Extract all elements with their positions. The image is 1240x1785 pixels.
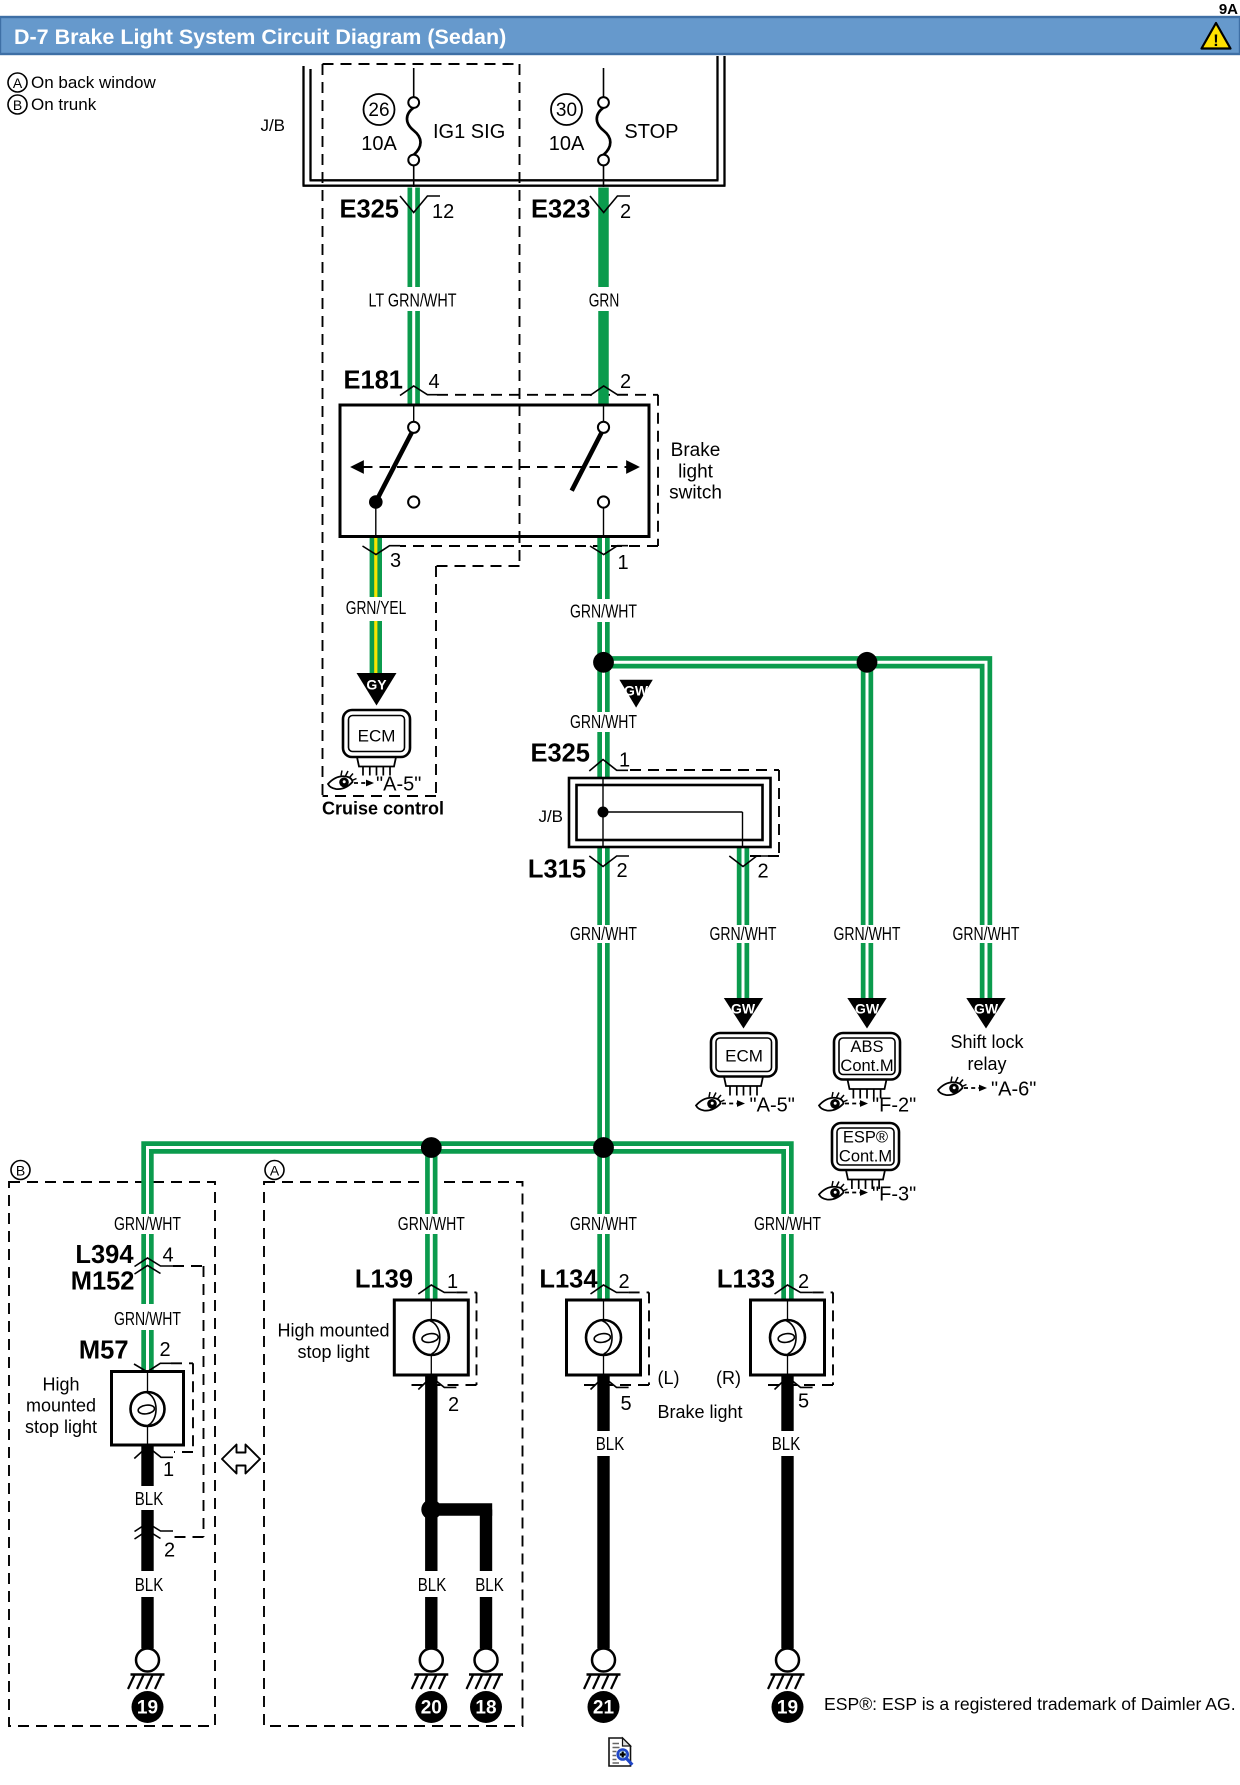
junction node at ABS branch (857, 652, 878, 673)
svg-text:On trunk: On trunk (31, 95, 97, 114)
svg-text:ESP®: ESP® (843, 1129, 888, 1147)
J/B internal circuit (603, 778, 743, 847)
svg-text:GW: GW (855, 1001, 880, 1017)
brake light L133 (lamp) (751, 1300, 825, 1375)
svg-text:GRN/WHT: GRN/WHT (398, 1214, 465, 1234)
svg-text:ESP®: ESP is a registered trad: ESP®: ESP is a registered trademark of D… (824, 1694, 1236, 1714)
svg-text:2: 2 (620, 371, 631, 393)
svg-text:GRN/WHT: GRN/WHT (114, 1214, 181, 1234)
wire GRN/WHT drop from junction to L139 pin 1 (425, 1148, 437, 1301)
connector E325 pin 12 (339, 196, 454, 224)
svg-text:stop light: stop light (297, 1342, 369, 1362)
J/B junction block box (double border) (303, 56, 726, 186)
connector L139 pin 2 (418, 1377, 459, 1416)
junction node at L139 drop (421, 1137, 442, 1158)
svg-text:Cruise control: Cruise control (322, 799, 444, 819)
svg-text:light: light (678, 462, 714, 483)
wire GRN/WHT main: switch pin 1 down to J/B E325 pin 1 (597, 537, 609, 779)
svg-text:BLK: BLK (475, 1575, 504, 1595)
connector L315 pin 2 (left) (528, 856, 629, 884)
white label pads (gaps in wires) (111, 287, 1023, 1597)
ECM module (cruise control) (343, 710, 410, 776)
connector E323 pin 2 at switch (590, 371, 631, 396)
label: Brake light switch (669, 440, 722, 504)
svg-text:BLK: BLK (596, 1434, 625, 1454)
dashed outline of connector L133 (813, 1291, 833, 1293)
ground symbol (M57 branch) (128, 1649, 165, 1690)
svg-text:L134: L134 (539, 1266, 598, 1294)
svg-text:Cont.M: Cont.M (840, 1057, 893, 1075)
wire GRN/WHT drop to ABS controller (861, 662, 873, 1000)
switch pole 1 (IG1 side) (369, 405, 419, 537)
svg-text:mounted: mounted (26, 1396, 96, 1416)
label: High mounted stop light (B) (25, 1375, 97, 1438)
svg-text:M152: M152 (71, 1268, 135, 1296)
svg-text:BLK: BLK (418, 1575, 447, 1595)
GY destination arrow (357, 673, 397, 706)
connector L133 pin 2 (717, 1266, 813, 1295)
wire GRN/WHT from L315 pin 2 (right) down to ECM (737, 847, 749, 1000)
svg-text:E181: E181 (343, 367, 403, 395)
equivalence double arrow between variants (222, 1445, 260, 1474)
svg-text:19: 19 (137, 1698, 158, 1719)
connector L134 pin 5 (591, 1377, 632, 1415)
svg-text:GRN/WHT: GRN/WHT (834, 924, 901, 944)
svg-text:"A-5": "A-5" (750, 1095, 795, 1117)
svg-text:2: 2 (164, 1540, 175, 1562)
fuse 26 10A (IG1 SIG) (361, 68, 505, 187)
svg-text:"A-5": "A-5" (376, 774, 421, 796)
label: High mounted stop light (A) (277, 1321, 389, 1363)
svg-text:GRN/WHT: GRN/WHT (570, 1214, 637, 1234)
warning triangle icon (1202, 23, 1231, 50)
svg-text:3: 3 (390, 550, 401, 572)
svg-text:relay: relay (967, 1054, 1006, 1074)
dashed outline of connector L139 (456, 1291, 476, 1293)
connector E323 pin 2 (531, 196, 631, 224)
wire LT GRN/WHT from fuse 26 (E325 pin 12) to switch pin 4 (408, 188, 420, 406)
wire labels GRN/WHT row (570, 924, 1020, 944)
wire labels GRN/WHT row 2 (114, 1214, 821, 1234)
svg-text:GW: GW (731, 1001, 756, 1017)
ground id 21 (588, 1691, 620, 1723)
brake light switch box (340, 405, 649, 537)
svg-text:IG1 SIG: IG1 SIG (433, 121, 505, 143)
switch pin 1 (590, 546, 629, 574)
svg-text:2: 2 (160, 1339, 171, 1361)
svg-text:Cont.M: Cont.M (839, 1148, 892, 1166)
fuse 30 10A (STOP) (549, 68, 679, 187)
svg-text:GW: GW (974, 1001, 999, 1017)
svg-text:9A: 9A (1219, 1, 1238, 18)
junction node on GRN/WHT at branch (593, 652, 614, 673)
ground symbol (L139 left) (412, 1649, 449, 1690)
wire GRN from fuse 30 (E323 pin 2) to switch pin 2 (598, 188, 609, 406)
svg-text:2: 2 (619, 1271, 630, 1293)
svg-text:!: ! (1213, 31, 1219, 50)
svg-text:A: A (270, 1163, 280, 1179)
connector L315 pin 2 (right) (729, 856, 769, 883)
svg-text:BLK: BLK (135, 1575, 164, 1595)
svg-text:B: B (16, 1163, 25, 1179)
svg-text:stop light: stop light (25, 1417, 97, 1437)
title bar (0, 17, 1240, 54)
svg-text:GRN/WHT: GRN/WHT (570, 712, 637, 732)
ground id 19 (right) (772, 1691, 804, 1723)
svg-text:(R): (R) (716, 1368, 741, 1388)
dashed box B (on trunk variant) (9, 1182, 215, 1726)
section label A (265, 1161, 284, 1180)
wire BLK from L133 pin 5 to ground (781, 1375, 793, 1649)
wire BLK branch bar below L139 (431, 1503, 492, 1515)
svg-text:BLK: BLK (772, 1434, 801, 1454)
ground symbol (L134) (584, 1649, 621, 1690)
svg-text:L394: L394 (75, 1241, 134, 1269)
switch pole 2 (STOP side) (572, 405, 609, 537)
svg-text:On back window: On back window (31, 73, 156, 92)
GW branch arrow at junction (619, 680, 652, 708)
ABS control module (834, 1033, 900, 1099)
svg-text:Brake light: Brake light (657, 1402, 742, 1422)
svg-text:J/B: J/B (538, 807, 563, 826)
svg-text:GRN/YEL: GRN/YEL (346, 598, 407, 618)
svg-text:GRN/WHT: GRN/WHT (114, 1309, 181, 1329)
junction node at L134 drop (593, 1137, 614, 1158)
GW arrow to ABS (847, 998, 886, 1029)
switch pin 3 (363, 546, 402, 572)
svg-text:M57: M57 (79, 1337, 129, 1365)
svg-text:E323: E323 (531, 196, 591, 224)
svg-text:2: 2 (448, 1394, 459, 1416)
svg-text:GW: GW (624, 683, 649, 699)
junction node on BLK branch below L139 (421, 1500, 441, 1520)
svg-text:High: High (42, 1375, 79, 1395)
svg-text:STOP: STOP (624, 121, 678, 143)
svg-text:(L): (L) (658, 1368, 680, 1388)
svg-text:26: 26 (368, 100, 389, 121)
svg-text:ECM: ECM (358, 727, 396, 746)
svg-text:B: B (13, 97, 22, 113)
ground symbol (L133) (768, 1649, 805, 1690)
svg-text:"A-6": "A-6" (991, 1079, 1036, 1101)
dashed region L394/M152 inline connector (173, 1265, 204, 1267)
connector L133 pin 5 (775, 1377, 813, 1413)
svg-text:BLK: BLK (135, 1489, 164, 1509)
section label B (11, 1161, 30, 1180)
GW arrow to ECM (724, 998, 763, 1029)
svg-text:19: 19 (777, 1698, 798, 1719)
svg-text:GRN/WHT: GRN/WHT (710, 924, 777, 944)
dashed region around fuse 26 / IG1 SIG circuit (323, 63, 520, 65)
eye symbol with reference "F-2" (819, 1092, 916, 1117)
svg-text:GRN/WHT: GRN/WHT (570, 602, 637, 622)
zoom document icon (609, 1738, 632, 1766)
J/B internal node (598, 807, 609, 818)
mechanical link dashed arrow (352, 462, 638, 473)
dashed region around J/B connector E325/L315 (630, 769, 779, 771)
GW arrow to shift lock relay (966, 998, 1005, 1029)
wire BLK from L139 pin 2 to ground, with branch (425, 1375, 437, 1649)
ESP control module (832, 1123, 899, 1189)
svg-text:L139: L139 (355, 1266, 413, 1294)
svg-text:High mounted: High mounted (277, 1321, 389, 1341)
svg-text:L133: L133 (717, 1266, 775, 1294)
dashed region around brake light switch connector E181 (437, 394, 658, 396)
eye symbol with reference "A-5" (cruise) (328, 771, 421, 796)
svg-text:GY: GY (366, 677, 387, 693)
svg-text:1: 1 (163, 1459, 174, 1481)
svg-text:ECM: ECM (725, 1047, 763, 1066)
svg-text:1: 1 (618, 552, 629, 574)
legend note B: On trunk (8, 95, 97, 114)
inline connector L394 / M152 pin 4 (71, 1241, 174, 1296)
dashed box A (on back window variant) (264, 1182, 523, 1726)
svg-text:2: 2 (798, 1271, 809, 1293)
svg-text:"F-3": "F-3" (872, 1184, 916, 1206)
svg-text:5: 5 (798, 1391, 809, 1413)
svg-text:Shift lock: Shift lock (950, 1032, 1024, 1052)
svg-text:1: 1 (619, 750, 630, 772)
svg-text:L315: L315 (528, 856, 586, 884)
connector M57 pin 1 (134, 1447, 174, 1482)
svg-text:1: 1 (447, 1271, 458, 1293)
connector L139 pin 1 (355, 1266, 458, 1295)
svg-text:LT GRN/WHT: LT GRN/WHT (369, 291, 457, 311)
J/B junction block 2 (double box) (569, 778, 771, 847)
svg-text:E325: E325 (339, 196, 399, 224)
svg-text:2: 2 (758, 861, 769, 883)
ground id 20 (415, 1691, 447, 1723)
svg-text:GRN/WHT: GRN/WHT (570, 924, 637, 944)
connector L134 pin 2 (539, 1266, 629, 1295)
svg-text:GRN: GRN (589, 291, 620, 311)
eye symbol with reference "F-3" (819, 1181, 916, 1206)
connector E181 pin 4 (343, 367, 439, 396)
svg-text:ABS: ABS (850, 1038, 883, 1056)
dashed vertical through switch (section divider) (519, 405, 521, 537)
svg-text:GRN/WHT: GRN/WHT (953, 924, 1020, 944)
high mounted stop light L139 (lamp) (394, 1300, 468, 1375)
ground symbol (L139 right) (467, 1649, 504, 1690)
wire GRN/WHT lower distribution: corner down to M57 branch, across to corner down to L133 (148, 1148, 788, 1372)
dashed outline of connector L134 (629, 1291, 649, 1293)
svg-text:18: 18 (475, 1698, 496, 1719)
svg-text:5: 5 (621, 1393, 632, 1415)
wire BLK from L134 pin 5 to ground (597, 1375, 609, 1649)
ground id 18 (470, 1691, 502, 1723)
svg-text:A: A (13, 75, 23, 91)
svg-text:10A: 10A (361, 133, 397, 155)
svg-text:12: 12 (432, 201, 454, 223)
connector M57 pin 2 (79, 1337, 171, 1372)
svg-text:2: 2 (620, 201, 631, 223)
svg-text:10A: 10A (549, 133, 585, 155)
svg-text:E325: E325 (530, 740, 590, 768)
wire GRN/YEL from switch pin 3 to GY arrow (370, 537, 382, 674)
dashed jog from switch to cruise-control box (436, 565, 520, 567)
ECM module (711, 1033, 777, 1096)
svg-text:Brake: Brake (671, 440, 721, 461)
eye symbol with reference "A-6" (938, 1077, 1036, 1101)
svg-text:"F-2": "F-2" (872, 1095, 916, 1117)
eye symbol with reference "A-5" (696, 1092, 795, 1117)
dashed outline of connector M57 (171, 1362, 193, 1364)
wire labels BLK row (418, 1434, 801, 1595)
wire BLK from M57 pin 1 to ground (141, 1445, 153, 1649)
connector E325 pin 1 (530, 740, 630, 772)
svg-text:D-7 Brake Light System Circuit: D-7 Brake Light System Circuit Diagram (… (14, 25, 506, 49)
wire GRN/WHT horizontal branch from junction to right corner and down to shift lock relay (604, 656, 987, 1000)
wire GRN/WHT from L315 pin 2 (left) down to L134, through lower junction (597, 847, 609, 1300)
svg-text:switch: switch (669, 483, 722, 504)
brake light L134 (lamp) (567, 1300, 641, 1375)
svg-text:30: 30 (556, 100, 577, 121)
svg-text:2: 2 (617, 860, 628, 882)
legend note A: On back window (8, 73, 156, 92)
svg-text:21: 21 (593, 1698, 615, 1719)
svg-text:J/B: J/B (260, 116, 285, 135)
inline connector chevrons on BLK wire (135, 1523, 176, 1562)
wire BLK right branch to second ground (480, 1510, 492, 1649)
ground id 19 (132, 1691, 164, 1723)
svg-text:4: 4 (429, 371, 440, 393)
svg-text:GRN/WHT: GRN/WHT (754, 1214, 821, 1234)
high mounted stop light M57 (lamp) (112, 1372, 184, 1446)
svg-text:4: 4 (163, 1245, 174, 1267)
svg-text:20: 20 (421, 1698, 442, 1719)
